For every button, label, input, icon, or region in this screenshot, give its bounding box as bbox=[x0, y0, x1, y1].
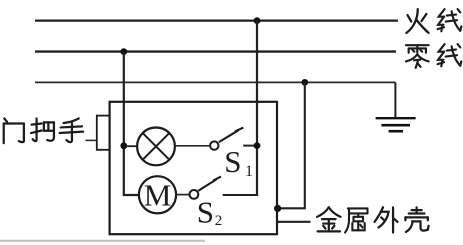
svg-text:2: 2 bbox=[215, 213, 223, 229]
label S2 bbox=[197, 194, 223, 229]
label S1 bbox=[224, 144, 253, 180]
wire: earth line (third horizontal) bbox=[35, 81, 395, 83]
svg-text:1: 1 bbox=[245, 163, 253, 180]
wire: pointer from case to metal-shell label bbox=[277, 221, 311, 223]
node: lamp branch junction bbox=[120, 142, 127, 149]
switch S2 lever bbox=[198, 177, 221, 191]
label: jin (metal) char of metal-shell label bbox=[317, 207, 341, 231]
wire: motor to switch S2 bbox=[176, 194, 190, 196]
wire: neutral line (second horizontal) bbox=[35, 50, 396, 52]
wire: drop from neutral junction down into appliance bbox=[124, 52, 139, 195]
lamp EL1 (circle with X) bbox=[137, 127, 175, 165]
label: xian (wire) char of neutral-wire label bbox=[438, 44, 462, 66]
wire: live line (top horizontal) bbox=[35, 20, 398, 22]
label: ba (handle) char of door-handle label bbox=[31, 118, 54, 141]
switch S1 pivot bbox=[210, 141, 218, 149]
wire: earth branch down to metal case bbox=[277, 82, 305, 208]
label: shou (hand) char of door-handle label bbox=[60, 118, 84, 142]
node: junction on live line bbox=[254, 17, 261, 24]
node: junction on neutral line bbox=[120, 48, 127, 55]
wire: S2 fixed contact to live drop corner bbox=[223, 194, 258, 196]
appliance case (metal shell box) bbox=[110, 102, 277, 234]
wire: junction to lamp bbox=[124, 145, 138, 147]
wire: pointer from label to door handle bbox=[86, 139, 97, 141]
motor M (circle with M) bbox=[139, 176, 176, 213]
svg-text:S: S bbox=[224, 144, 241, 179]
switch S1 lever bbox=[219, 128, 243, 143]
label: xian (wire) char of live-wire label bbox=[438, 9, 462, 31]
node: earth connection on case bbox=[274, 205, 281, 212]
svg-text:M: M bbox=[144, 177, 172, 212]
label: men (door) char of door-handle label bbox=[4, 118, 24, 143]
node: junction on earth line bbox=[301, 79, 308, 86]
label: ling (zero) char of neutral-wire label bbox=[406, 45, 429, 68]
door handle rectangle bbox=[97, 116, 110, 150]
wire: drop from live junction down into appliance bbox=[256, 21, 258, 195]
wire: earth line drop to ground symbol bbox=[394, 82, 396, 117]
label: huo (fire) char of live-wire label bbox=[406, 9, 428, 33]
svg-text:S: S bbox=[197, 194, 214, 229]
switch S2 pivot bbox=[190, 190, 199, 199]
label: ke (shell) char of metal-shell label bbox=[405, 207, 428, 232]
decorative scan streak bbox=[0, 240, 205, 242]
label: wai (outside) char of metal-shell label bbox=[375, 207, 398, 232]
ground bbox=[376, 118, 416, 131]
node: S1 contact on live drop bbox=[254, 142, 261, 149]
wire: lamp to switch S1 bbox=[175, 145, 210, 147]
label: shu (belong) char of metal-shell label bbox=[345, 208, 367, 232]
wire: S1 fixed contact to live drop bbox=[243, 145, 257, 147]
